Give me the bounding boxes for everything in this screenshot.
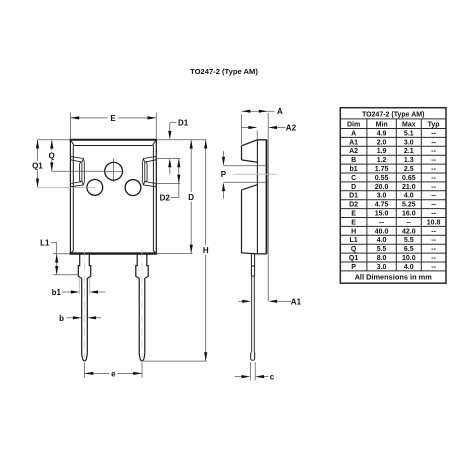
svg-text:10.0: 10.0 [402, 255, 416, 262]
dimension D [190, 140, 192, 254]
svg-text:--: -- [431, 166, 436, 173]
svg-text:3.0: 3.0 [404, 139, 414, 146]
dimension b1 [62, 278, 106, 295]
dimension P [224, 151, 269, 199]
svg-text:Q: Q [48, 151, 54, 160]
dimension D1 [156, 122, 206, 174]
dimension E [70, 113, 156, 140]
svg-text:D1: D1 [178, 119, 189, 128]
svg-text:5.5: 5.5 [404, 237, 414, 244]
right leg [136, 254, 148, 361]
svg-text:21.0: 21.0 [402, 184, 416, 191]
svg-text:10.8: 10.8 [427, 219, 441, 226]
svg-text:E: E [110, 114, 116, 123]
svg-text:1.75: 1.75 [375, 166, 389, 173]
dimension table [340, 108, 446, 284]
svg-text:4.75: 4.75 [375, 202, 389, 209]
table header row [347, 122, 440, 129]
svg-text:D: D [351, 184, 356, 191]
svg-text:16.0: 16.0 [402, 211, 416, 218]
svg-text:2.5: 2.5 [404, 166, 414, 173]
svg-text:--: -- [431, 148, 436, 155]
svg-text:b1: b1 [52, 288, 62, 297]
svg-text:4.9: 4.9 [377, 130, 387, 137]
dimension e [85, 363, 143, 378]
svg-text:b: b [59, 314, 64, 323]
svg-text:--: -- [431, 264, 436, 271]
svg-text:A: A [277, 107, 283, 116]
svg-text:A2: A2 [349, 148, 358, 155]
svg-text:Max: Max [402, 122, 416, 129]
svg-text:e: e [111, 369, 116, 378]
right sub-hole [125, 180, 141, 196]
svg-text:D1: D1 [349, 193, 358, 200]
dimension Q [38, 140, 105, 172]
svg-text:A: A [351, 130, 356, 137]
svg-text:Q1: Q1 [32, 162, 43, 171]
svg-text:P: P [351, 264, 356, 271]
svg-text:6.5: 6.5 [404, 246, 414, 253]
left leg center line [84, 250, 86, 359]
table data rows [349, 130, 441, 271]
dimension c [235, 362, 268, 381]
left sub-hole [87, 180, 103, 196]
right leg center line [141, 250, 143, 359]
svg-text:--: -- [431, 211, 436, 218]
svg-text:A2: A2 [286, 124, 297, 133]
mounting hole with crosshair [105, 162, 123, 180]
dimension A [242, 111, 275, 144]
svg-text:D2: D2 [349, 202, 358, 209]
svg-text:L1: L1 [40, 238, 50, 247]
svg-text:--: -- [431, 157, 436, 164]
svg-text:--: -- [406, 219, 411, 226]
dimension A1 [239, 300, 292, 302]
left leg [78, 254, 90, 361]
svg-text:--: -- [431, 255, 436, 262]
svg-text:0.65: 0.65 [402, 175, 416, 182]
svg-text:TO247-2 (Type AM): TO247-2 (Type AM) [362, 111, 425, 118]
svg-text:--: -- [431, 228, 436, 235]
svg-text:Min: Min [376, 122, 388, 129]
svg-text:2.0: 2.0 [377, 139, 387, 146]
svg-text:40.0: 40.0 [375, 228, 389, 235]
svg-text:L1: L1 [350, 237, 358, 244]
svg-text:4.0: 4.0 [377, 237, 387, 244]
svg-text:H: H [203, 246, 209, 255]
svg-text:E: E [351, 219, 356, 226]
svg-text:1.2: 1.2 [377, 157, 387, 164]
svg-text:5.1: 5.1 [404, 130, 414, 137]
side view hole center line [234, 173, 278, 175]
dimension Q1 [37, 140, 39, 188]
svg-text:20.0: 20.0 [375, 184, 389, 191]
svg-text:8.0: 8.0 [377, 255, 387, 262]
svg-text:15.0: 15.0 [375, 211, 389, 218]
dimension H [205, 140, 207, 361]
svg-text:--: -- [431, 202, 436, 209]
svg-text:A1: A1 [349, 139, 358, 146]
svg-text:B: B [351, 157, 356, 164]
front view body outline [70, 140, 158, 254]
svg-text:Dim: Dim [347, 122, 360, 129]
svg-text:--: -- [431, 193, 436, 200]
svg-text:3.0: 3.0 [377, 264, 387, 271]
svg-text:0.55: 0.55 [375, 175, 389, 182]
svg-text:b1: b1 [350, 166, 358, 173]
svg-text:D2: D2 [160, 193, 171, 202]
svg-text:P: P [221, 170, 227, 179]
svg-text:All Dimensions in mm: All Dimensions in mm [355, 273, 433, 282]
dimension b [67, 317, 102, 319]
svg-text:--: -- [431, 246, 436, 253]
right clip wing [142, 156, 156, 186]
svg-text:H: H [351, 228, 356, 235]
svg-text:--: -- [431, 139, 436, 146]
svg-text:--: -- [431, 184, 436, 191]
svg-text:4.0: 4.0 [404, 193, 414, 200]
svg-text:42.0: 42.0 [402, 228, 416, 235]
svg-text:Q: Q [351, 246, 357, 253]
side view body outline [242, 140, 267, 254]
svg-text:2.1: 2.1 [404, 148, 414, 155]
dimension D2 [157, 158, 181, 197]
svg-text:5.25: 5.25 [402, 202, 416, 209]
svg-text:5.5: 5.5 [377, 246, 387, 253]
svg-text:--: -- [431, 175, 436, 182]
svg-text:1.3: 1.3 [404, 157, 414, 164]
svg-text:TO247-2 (Type AM): TO247-2 (Type AM) [190, 67, 258, 76]
svg-text:E: E [351, 211, 356, 218]
svg-text:4.0: 4.0 [404, 264, 414, 271]
dimension A2 [242, 113, 286, 301]
svg-text:--: -- [379, 219, 384, 226]
svg-text:c: c [270, 373, 275, 382]
svg-text:--: -- [431, 130, 436, 137]
svg-text:D: D [188, 193, 194, 202]
svg-text:Q1: Q1 [349, 255, 358, 262]
side view lead [251, 254, 255, 360]
svg-text:Typ: Typ [428, 122, 440, 129]
svg-text:A1: A1 [291, 297, 302, 306]
left clip wing [71, 156, 85, 186]
dimension L1 [51, 242, 80, 274]
svg-text:1.9: 1.9 [377, 148, 387, 155]
svg-text:3.0: 3.0 [377, 193, 387, 200]
svg-text:--: -- [431, 237, 436, 244]
svg-text:C: C [351, 175, 356, 182]
